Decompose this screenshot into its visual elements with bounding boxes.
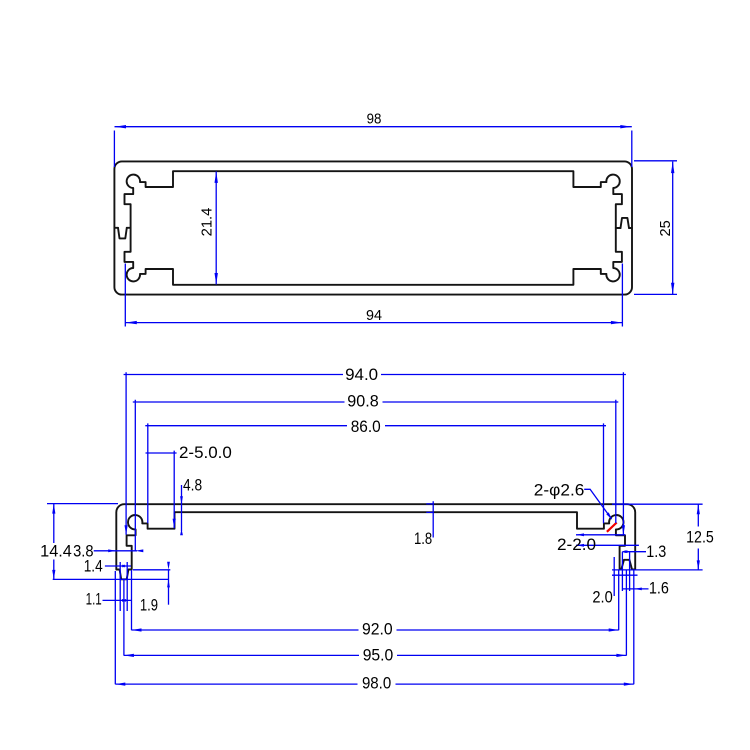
dim 2-2.0 upper line xyxy=(576,534,625,536)
arrowheads 12.5 xyxy=(697,504,700,514)
svg-text:92.0: 92.0 xyxy=(362,620,393,639)
dim 12.5 extensions xyxy=(612,504,703,570)
svg-text:1.8: 1.8 xyxy=(414,529,432,548)
arrowheads 1.4 xyxy=(120,565,125,568)
dim 2-5.0.0 line xyxy=(146,451,177,529)
svg-text:21.4: 21.4 xyxy=(199,208,216,237)
half-shell profile outline xyxy=(116,504,635,579)
svg-text:4.8: 4.8 xyxy=(183,476,202,495)
dim 1.9 extension xyxy=(133,569,170,571)
left wall parting line ticks xyxy=(114,227,130,229)
svg-text:94.0: 94.0 xyxy=(345,365,378,384)
dim 14.4 line xyxy=(53,504,55,579)
arrowheads 92.0 xyxy=(132,628,142,631)
text 90.8 xyxy=(345,391,383,410)
arrowheads 14.4 xyxy=(52,504,55,514)
dim 95.0 line xyxy=(124,654,627,656)
dim 1.1 line xyxy=(103,599,132,601)
dim 1.8 line xyxy=(426,501,433,537)
arrowhead 2-5.0.0 xyxy=(173,519,176,529)
dim 3.8 line xyxy=(94,550,137,552)
svg-text:98.0: 98.0 xyxy=(362,674,391,693)
svg-text:1.9: 1.9 xyxy=(140,595,158,614)
right extension verticals xyxy=(619,552,634,685)
dim 21.4 line xyxy=(215,171,217,284)
text 86.0 xyxy=(347,417,385,436)
dim 2-2.0 lower line xyxy=(576,544,639,546)
arrowheads 98.0 xyxy=(115,683,125,686)
leader 2-phi2.6 xyxy=(584,489,611,519)
arrowheads dim 94 xyxy=(125,321,137,324)
svg-text:1.6: 1.6 xyxy=(649,579,669,598)
arrowheads 1.1 xyxy=(121,599,126,602)
dim 1.6 line xyxy=(623,588,649,590)
inner cavity outline with four screw bosses xyxy=(125,171,622,285)
text 12.5 xyxy=(684,528,717,547)
svg-text:1.4: 1.4 xyxy=(84,557,103,576)
arrowhead leader 2-phi2.6 xyxy=(606,512,612,519)
dim 1.9 line xyxy=(168,570,170,605)
svg-text:95.0: 95.0 xyxy=(363,645,394,664)
svg-text:1.3: 1.3 xyxy=(646,542,666,561)
svg-text:2-5.0.0: 2-5.0.0 xyxy=(179,443,232,462)
dim 1.3 line xyxy=(622,551,646,553)
dim 98.0 line xyxy=(115,683,634,685)
arrowheads 4.8 xyxy=(180,496,183,504)
dim 4.8 line xyxy=(181,485,183,531)
dim 1.4 line xyxy=(105,565,131,567)
svg-text:12.5: 12.5 xyxy=(686,528,714,547)
svg-text:25: 25 xyxy=(657,220,674,236)
svg-text:1.1: 1.1 xyxy=(86,590,102,609)
top view dimensions xyxy=(114,127,677,327)
dim 98 line xyxy=(115,126,632,128)
svg-text:2-2.0: 2-2.0 xyxy=(557,535,596,554)
dim 2.0 leader xyxy=(612,557,638,596)
arrowheads 1.9 xyxy=(167,562,170,570)
arrowheads 2-2.0 xyxy=(576,533,584,536)
arrowheads 1.3 xyxy=(622,550,627,553)
dim 94 extension lines xyxy=(125,264,622,327)
arrowheads dim 21.4 xyxy=(215,171,218,183)
dim 90.8 bracket xyxy=(133,400,619,552)
shared bottom extension (14.4 / 1.9) xyxy=(53,578,169,580)
dim 25 extension lines xyxy=(634,161,677,295)
svg-text:2-φ2.6: 2-φ2.6 xyxy=(534,481,585,500)
dim 25 line xyxy=(672,162,674,295)
text 98.0 xyxy=(358,674,396,693)
dim 92.0 line xyxy=(132,629,619,631)
svg-text:98: 98 xyxy=(367,111,382,128)
arrowheads 95.0 xyxy=(124,654,134,657)
svg-text:14.4: 14.4 xyxy=(40,542,72,561)
text 92.0 xyxy=(359,620,397,639)
svg-text:94: 94 xyxy=(366,307,382,324)
left extension verticals xyxy=(115,562,131,684)
text 95.0 xyxy=(359,645,397,664)
left wall joint tongue (down) xyxy=(118,228,127,239)
dim 94.0 bracket xyxy=(124,372,626,535)
svg-text:2.0: 2.0 xyxy=(592,587,612,606)
dim 86.0 bracket xyxy=(145,423,606,523)
text 94.0 xyxy=(343,365,381,384)
dim 12.5 line xyxy=(697,504,699,569)
right wall joint tongue (up) xyxy=(621,218,630,228)
arrowheads dim 98 xyxy=(115,125,127,128)
arrowheads dim 25 xyxy=(671,162,674,174)
svg-text:86.0: 86.0 xyxy=(351,417,381,436)
arrowheads 3.8 xyxy=(108,549,116,552)
arrowheads 94.0 xyxy=(125,525,128,535)
dim 98 extension lines xyxy=(114,131,631,168)
bottom view dimensions xyxy=(47,372,703,684)
red thread mark on right screw hole xyxy=(607,523,617,532)
dim 94 line xyxy=(125,322,622,324)
arrowhead 1.6 xyxy=(634,588,642,591)
right wall parting line ticks xyxy=(616,227,632,229)
outer shell rounded rectangle xyxy=(114,161,632,294)
dim 14.4 extension top xyxy=(47,503,118,505)
svg-text:90.8: 90.8 xyxy=(347,391,378,410)
